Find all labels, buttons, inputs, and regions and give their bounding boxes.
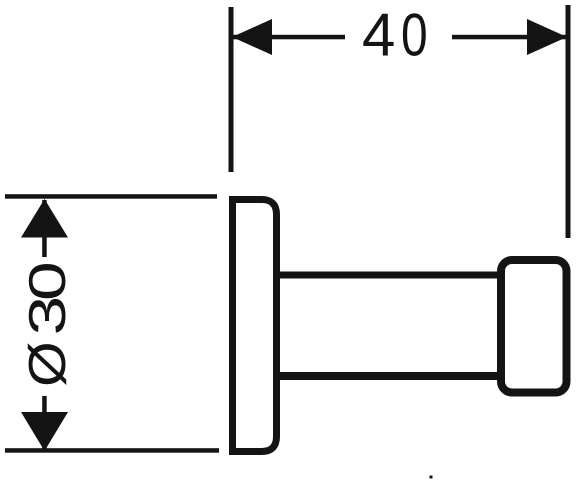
extension line top (diameter dim) [5, 194, 217, 199]
dimension line diameter bottom segment [42, 396, 47, 450]
stem top line [276, 272, 502, 279]
knob end cap [501, 260, 567, 393]
dimension line 40 right segment [452, 35, 567, 40]
svg-text:30: 30 [18, 263, 76, 335]
svg-text:Ø: Ø [18, 341, 76, 387]
label 40 [362, 1, 428, 68]
stem bottom line [276, 372, 502, 380]
svg-text:4: 4 [362, 2, 395, 69]
wall plate [233, 200, 277, 452]
svg-text:0: 0 [401, 1, 428, 68]
arrowhead down (diameter dim) [21, 412, 68, 451]
dimension line 40 left segment [233, 35, 345, 40]
extension line bottom (diameter dim) [5, 448, 219, 453]
dot artifact [430, 476, 433, 479]
arrowhead up (diameter dim) [21, 199, 68, 238]
label diameter 30 [18, 263, 77, 387]
dimension line diameter top segment [42, 200, 47, 257]
arrowhead right (40 dim) [527, 19, 567, 55]
extension line left (40 dim) [229, 7, 234, 172]
arrowhead left (40 dim) [232, 19, 272, 55]
extension line right (40 dim) [566, 5, 571, 238]
